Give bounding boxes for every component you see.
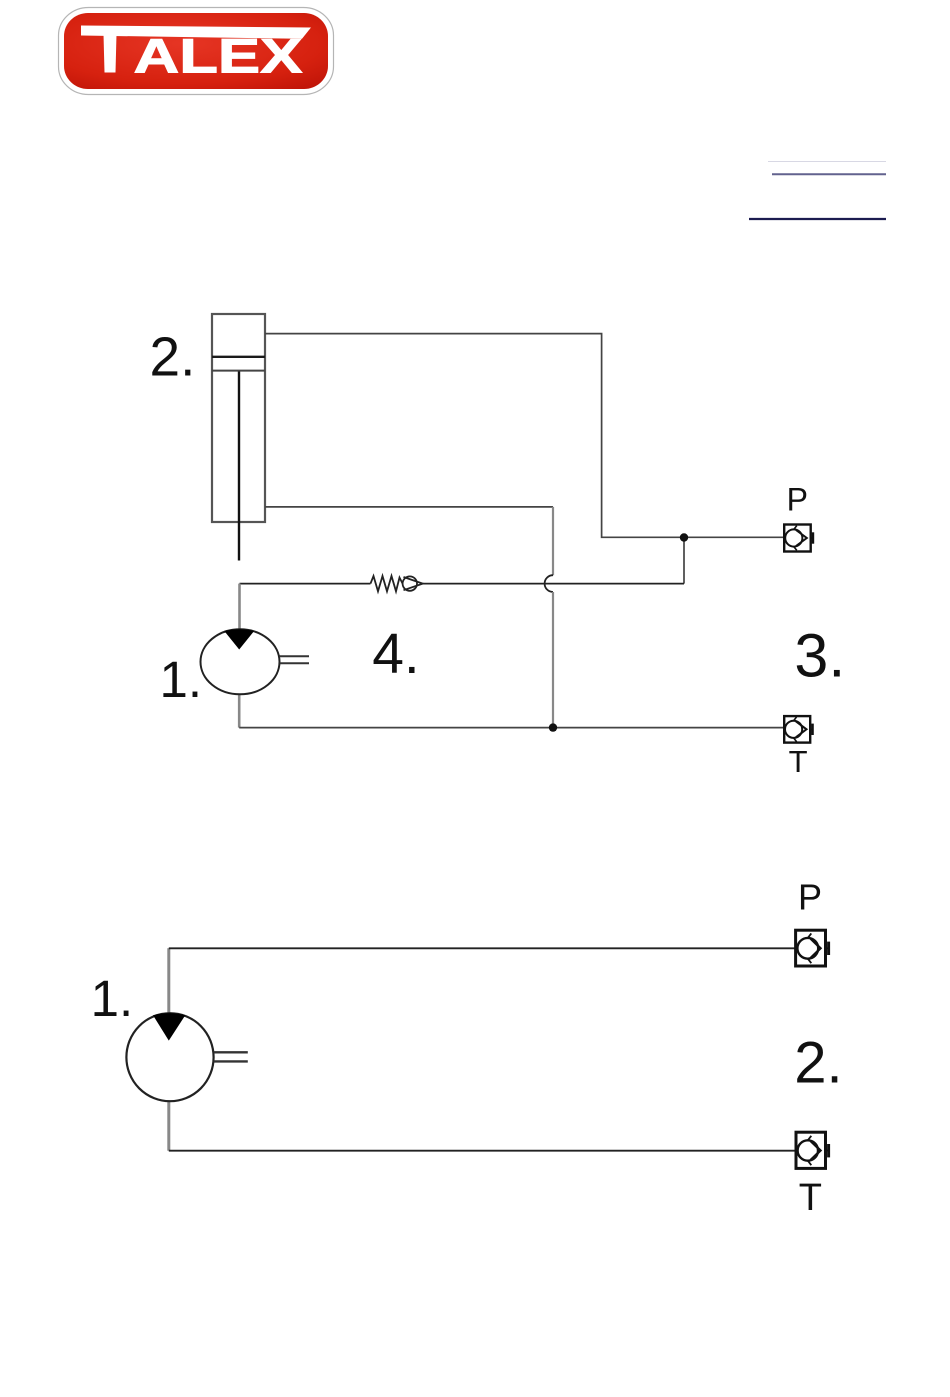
svg-text:2.: 2.	[794, 1031, 842, 1096]
svg-text:T: T	[799, 1177, 822, 1219]
svg-text:ALEX: ALEX	[134, 29, 303, 83]
svg-text:4.: 4.	[372, 622, 420, 686]
svg-text:1.: 1.	[91, 970, 134, 1027]
svg-text:P: P	[798, 876, 822, 917]
svg-text:3.: 3.	[794, 621, 845, 689]
svg-text:P: P	[787, 481, 808, 517]
svg-text:2.: 2.	[150, 326, 196, 388]
svg-text:T: T	[789, 744, 808, 779]
svg-text:1.: 1.	[160, 651, 203, 708]
